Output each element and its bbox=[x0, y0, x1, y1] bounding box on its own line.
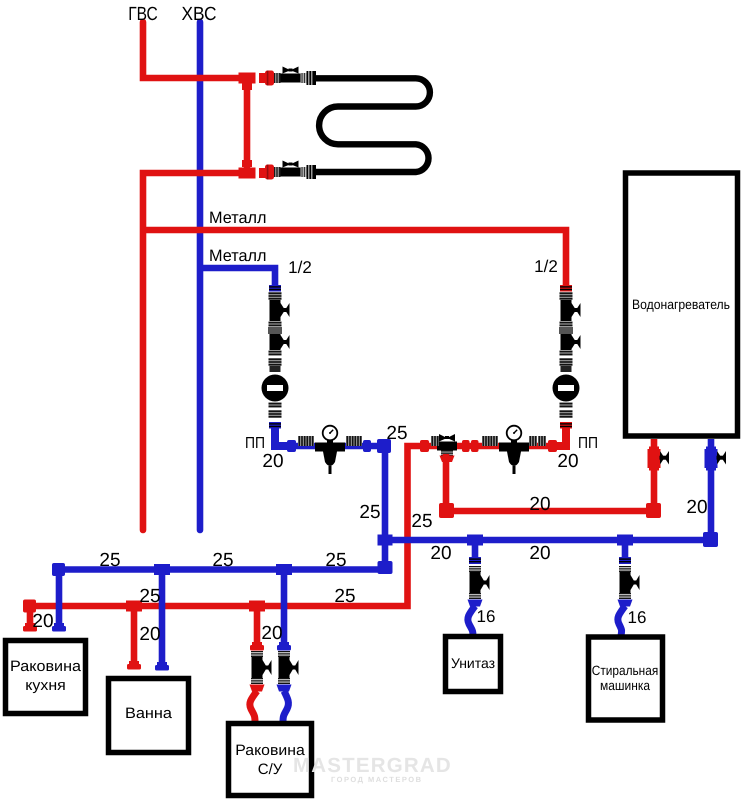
fitting bbox=[250, 642, 264, 651]
fitting bbox=[560, 422, 572, 429]
labels 16 bbox=[477, 607, 647, 627]
wire hot lower branch bbox=[143, 173, 247, 530]
hose toilet s-bend bbox=[468, 606, 475, 636]
fitting bbox=[469, 557, 481, 564]
coupling on cold drop bbox=[269, 285, 281, 292]
wire hot tee column bbox=[244, 78, 251, 173]
svg-text:ГОРОД МАСТЕРОВ: ГОРОД МАСТЕРОВ bbox=[331, 775, 423, 784]
elbow cold lower bbox=[378, 561, 393, 574]
coupling bbox=[548, 440, 557, 452]
svg-text:Ванна: Ванна bbox=[125, 705, 173, 722]
fitting bbox=[665, 451, 670, 465]
wire cold lower row bbox=[59, 540, 385, 624]
svg-text:20: 20 bbox=[261, 623, 282, 644]
tee bath hot bbox=[126, 601, 142, 612]
drop bath hot bbox=[131, 606, 138, 661]
valve hot feed bbox=[437, 434, 457, 462]
fitting bbox=[445, 436, 449, 439]
fitting bbox=[717, 456, 727, 460]
coupling bbox=[482, 436, 490, 446]
coupling bbox=[306, 436, 314, 446]
svg-text:С/У: С/У bbox=[258, 761, 283, 778]
hose sink-wc hot bbox=[250, 691, 257, 722]
fitting bbox=[560, 423, 572, 424]
fitting bbox=[560, 286, 572, 287]
svg-text:ХВС: ХВС bbox=[182, 4, 217, 25]
flare washer bbox=[618, 600, 633, 607]
svg-text:Стиральная: Стиральная bbox=[592, 663, 659, 678]
flare sink-wc cold bbox=[277, 685, 292, 692]
wire blue metal branch bbox=[200, 268, 275, 288]
svg-text:25: 25 bbox=[212, 550, 233, 571]
svg-text:20: 20 bbox=[430, 543, 451, 564]
tee bath cold bbox=[154, 564, 170, 575]
water heater box bbox=[626, 173, 738, 436]
fitting bbox=[619, 558, 631, 559]
fitting bbox=[447, 434, 455, 442]
tee sink-wc hot bbox=[249, 601, 265, 612]
fitting bbox=[660, 451, 665, 465]
washer box bbox=[589, 637, 663, 720]
svg-text:20: 20 bbox=[529, 543, 550, 564]
coupling bbox=[287, 440, 296, 452]
tee sink-wc cold bbox=[276, 564, 292, 575]
fitting bbox=[277, 642, 291, 651]
svg-text:16: 16 bbox=[628, 608, 647, 627]
toilet box bbox=[446, 637, 501, 692]
svg-text:кухня: кухня bbox=[25, 677, 66, 694]
flare sink-wc hot bbox=[250, 685, 265, 692]
valve sink-wc hot bbox=[251, 651, 272, 684]
svg-text:20: 20 bbox=[32, 611, 53, 632]
valve towel bottom bbox=[265, 161, 316, 180]
fitting bbox=[646, 503, 661, 518]
fitting bbox=[52, 623, 66, 632]
fitting bbox=[269, 426, 281, 427]
fitting bbox=[441, 452, 453, 453]
svg-text:20: 20 bbox=[262, 451, 283, 472]
coupling red pair bbox=[462, 440, 479, 452]
coupling cold lower bbox=[269, 422, 281, 429]
node ХВС cold riser bbox=[197, 22, 204, 530]
wire cold to heater bbox=[385, 439, 711, 540]
elbow cold column to row bbox=[275, 428, 290, 446]
valve washer bbox=[619, 566, 640, 599]
elbow cold down bbox=[377, 439, 391, 453]
svg-text:20: 20 bbox=[529, 494, 550, 515]
svg-text:20: 20 bbox=[139, 624, 160, 645]
elbow kitchen hot corner bbox=[23, 600, 36, 613]
drop toilet bbox=[472, 540, 479, 558]
fitting column hot bbox=[553, 292, 581, 418]
gauge tee hot bbox=[499, 426, 529, 474]
fitting bbox=[269, 285, 281, 292]
fitting bbox=[269, 286, 281, 287]
fitting bbox=[706, 447, 716, 450]
coupling bbox=[529, 436, 537, 446]
svg-text:MASTERGRAD: MASTERGRAD bbox=[293, 754, 452, 777]
svg-text:ПП: ПП bbox=[245, 435, 265, 452]
gauge tee cold bbox=[315, 426, 345, 474]
svg-text:25: 25 bbox=[325, 550, 346, 571]
fitting bbox=[155, 662, 169, 671]
tee toilet bbox=[467, 535, 483, 546]
fitting bbox=[660, 456, 670, 460]
fitting bbox=[259, 73, 267, 83]
hose washer s-bend bbox=[618, 606, 625, 636]
fitting bbox=[439, 434, 447, 442]
node ГВС hot riser top bbox=[143, 22, 247, 78]
labels 25 bbox=[99, 423, 432, 607]
fitting bbox=[469, 558, 481, 559]
svg-text:25: 25 bbox=[359, 502, 380, 523]
svg-text:Раковина: Раковина bbox=[10, 658, 82, 675]
fitting bbox=[23, 623, 37, 632]
fitting bbox=[469, 557, 481, 564]
fitting bbox=[269, 422, 281, 429]
svg-text:25: 25 bbox=[386, 423, 407, 444]
svg-text:Металл: Металл bbox=[209, 247, 267, 265]
elbow heater cold corner bbox=[703, 532, 718, 547]
coupling bbox=[346, 436, 354, 446]
fitting bbox=[717, 451, 722, 465]
wire cold row bbox=[283, 446, 385, 540]
bath box bbox=[109, 679, 189, 753]
fitting bbox=[242, 83, 252, 90]
fitting bbox=[705, 449, 718, 468]
coupling bbox=[354, 436, 362, 446]
fitting bbox=[437, 442, 457, 451]
fitting bbox=[619, 557, 631, 564]
fitting bbox=[127, 661, 141, 670]
coupling on hot drop bbox=[560, 285, 572, 292]
drop sink-wc hot bbox=[254, 606, 261, 642]
labels 20 bbox=[32, 451, 707, 645]
fitting bbox=[649, 468, 659, 471]
wire hot row bbox=[30, 446, 560, 624]
tee washer bbox=[617, 535, 633, 546]
coupling bbox=[490, 436, 498, 446]
svg-text:1/2: 1/2 bbox=[288, 258, 312, 277]
fitting bbox=[706, 468, 716, 471]
fitting bbox=[239, 168, 256, 179]
valve towel top bbox=[265, 67, 316, 86]
towel radiator serpentine bbox=[316, 78, 430, 172]
fitting bbox=[619, 557, 631, 564]
svg-text:Металл: Металл bbox=[209, 209, 267, 227]
coupling hot lower bbox=[560, 422, 572, 429]
fitting bbox=[560, 289, 572, 290]
fitting bbox=[52, 563, 65, 576]
valve heater cold bbox=[705, 447, 727, 471]
svg-text:25: 25 bbox=[334, 586, 355, 607]
wire hot metal line bbox=[143, 230, 566, 288]
drop bath cold bbox=[159, 569, 166, 662]
fitting bbox=[242, 160, 252, 167]
coupling bbox=[538, 436, 546, 446]
svg-text:ПП: ПП bbox=[578, 435, 598, 452]
fitting bbox=[560, 426, 572, 427]
elbow corners hot heater line bbox=[439, 503, 454, 518]
valve sink-wc cold bbox=[278, 651, 299, 684]
svg-text:машинка: машинка bbox=[600, 678, 650, 693]
coupling bbox=[420, 440, 429, 452]
kitchen sink box bbox=[6, 641, 86, 714]
fitting bbox=[441, 451, 453, 456]
tee fitting top bbox=[239, 73, 268, 179]
svg-text:20: 20 bbox=[557, 451, 578, 472]
fitting column cold bbox=[262, 292, 290, 418]
svg-text:Унитаз: Унитаз bbox=[451, 655, 495, 671]
wc sink box bbox=[229, 724, 312, 796]
hose sink-wc cold bbox=[283, 691, 288, 722]
fitting bbox=[259, 168, 267, 178]
valve toilet bbox=[469, 566, 490, 599]
elbow hot column to row bbox=[552, 428, 566, 446]
wire hot to heater bbox=[446, 439, 654, 511]
svg-text:25: 25 bbox=[411, 511, 432, 532]
svg-text:Водонагреватель: Водонагреватель bbox=[632, 297, 730, 312]
coupling bbox=[431, 436, 439, 446]
coupling bbox=[363, 440, 371, 452]
tee cold mid bbox=[378, 535, 393, 546]
fitting bbox=[441, 454, 453, 455]
svg-text:25: 25 bbox=[99, 550, 120, 571]
fitting bbox=[722, 451, 727, 465]
svg-text:ГВС: ГВС bbox=[128, 4, 158, 25]
fitting bbox=[440, 456, 455, 463]
fitting bbox=[269, 423, 281, 424]
fitting bbox=[269, 289, 281, 290]
fitting bbox=[469, 561, 481, 562]
svg-text:20: 20 bbox=[686, 497, 707, 518]
valve heater hot bbox=[648, 447, 670, 471]
fitting bbox=[560, 285, 572, 292]
fitting bbox=[619, 561, 631, 562]
flare toilet bbox=[468, 600, 483, 607]
drop washer bbox=[622, 540, 629, 558]
fitting bbox=[648, 449, 661, 468]
fitting bbox=[649, 447, 659, 450]
svg-text:1/2: 1/2 bbox=[534, 257, 558, 276]
drop sink-wc cold bbox=[281, 569, 288, 642]
svg-text:16: 16 bbox=[477, 607, 496, 626]
svg-text:25: 25 bbox=[139, 586, 160, 607]
coupling bbox=[298, 436, 306, 446]
